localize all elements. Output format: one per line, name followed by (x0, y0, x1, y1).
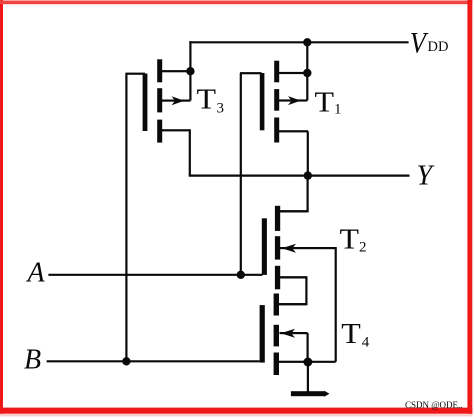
svg-text:3: 3 (217, 100, 225, 116)
transistor T3 (PMOS load) (125, 59, 190, 142)
svg-text:B: B (24, 345, 41, 376)
junction dot T1 drain (303, 69, 311, 77)
wire T3 source down to Y node (189, 129, 191, 175)
wire ground stem (307, 362, 309, 392)
svg-text:T: T (340, 225, 360, 256)
wire T3 gate vertical to B line (125, 74, 127, 362)
svg-text:T: T (197, 85, 217, 116)
junction dot T3 drain (186, 67, 194, 75)
transistor T2 (NMOS driver) (262, 206, 336, 289)
junction dot VDD rail / T1 branch (303, 38, 311, 46)
svg-text:T: T (341, 319, 361, 350)
wire bottom link T4 source to T2 substrate (308, 361, 336, 363)
label T1 (315, 87, 342, 118)
svg-text:1: 1 (334, 101, 342, 117)
svg-text:CSDN @ODE..: CSDN @ODE.. (405, 400, 463, 410)
svg-text:A: A (26, 257, 46, 288)
junction dot B line / T3 gate (122, 357, 130, 365)
svg-text:4: 4 (362, 334, 370, 350)
svg-text:2: 2 (359, 240, 367, 256)
wire T3 drain/substrate vertical to VDD rail (189, 41, 191, 100)
wire Y node down to T2 drain (280, 176, 308, 212)
label T2 (340, 225, 367, 256)
wire VDD rail (189, 41, 408, 43)
wire input B line (47, 360, 260, 362)
wire input A line (48, 274, 262, 276)
transistor T4 (NMOS driver) (260, 294, 308, 376)
transistor T1 (PMOS load) (240, 61, 308, 143)
ground (291, 391, 330, 397)
wire T2 substrate down right side (334, 248, 337, 362)
junction dot A line / T1 gate (237, 271, 245, 279)
net VDD label (410, 26, 449, 59)
junction dot T4 source / ground node (303, 358, 312, 367)
wire T1 gate vertical to A line (240, 73, 242, 275)
label T3 (197, 85, 225, 117)
svg-text:DD: DD (428, 39, 449, 55)
svg-text:T: T (315, 87, 335, 118)
wire T1 source down to Y node (307, 131, 309, 175)
label T4 (341, 319, 370, 350)
junction dot Y node / T1 source (304, 171, 312, 179)
wire T2 source to T4 drain (279, 277, 307, 304)
wire Y output line (189, 175, 410, 177)
wire T4 substrate down to source node (307, 333, 309, 362)
svg-text:Y: Y (417, 161, 436, 192)
svg-text:V: V (410, 26, 429, 59)
wire T1 drain/substrate vertical to VDD rail (306, 42, 308, 100)
